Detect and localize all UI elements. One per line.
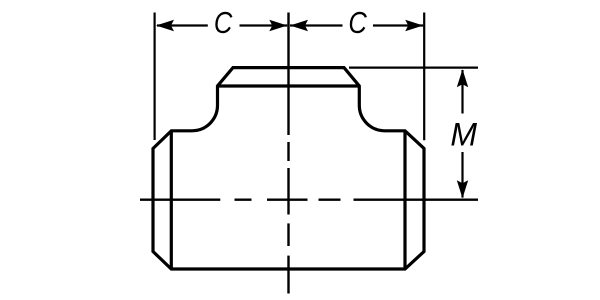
svg-text:C: C xyxy=(214,6,233,41)
svg-text:M: M xyxy=(450,117,477,153)
svg-text:C: C xyxy=(348,6,367,41)
